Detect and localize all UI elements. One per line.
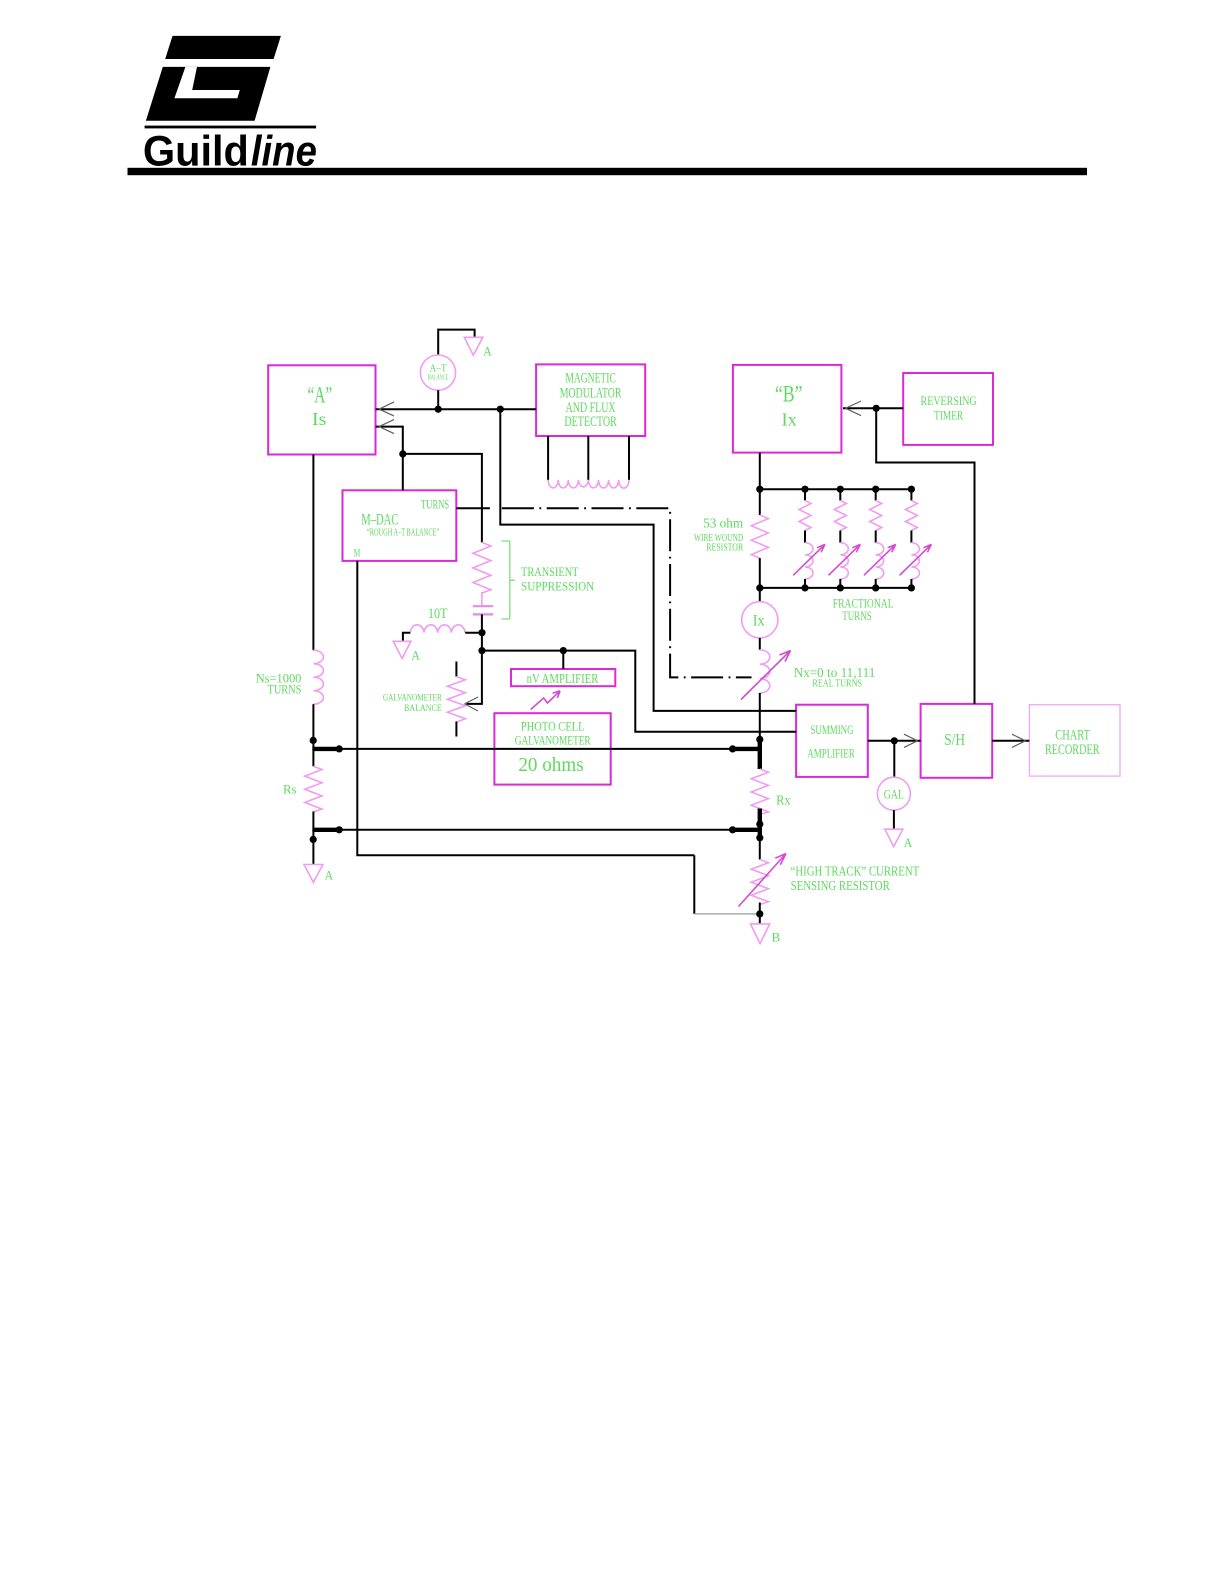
header rule xyxy=(128,168,1088,175)
wire reversing timer to "B" box xyxy=(843,407,903,409)
node B ground xyxy=(756,910,763,917)
fractional turns branch 3 xyxy=(864,489,896,588)
wire node to transient suppression branch xyxy=(403,454,482,543)
svg-text:Ix: Ix xyxy=(782,410,797,430)
wire Rs to lower bus xyxy=(312,812,314,830)
block magnetic modulator and flux detector xyxy=(536,364,645,436)
svg-text:TIMER: TIMER xyxy=(934,408,963,423)
transformer winding mag modulator xyxy=(548,480,629,488)
arrowhead into "A" box lower xyxy=(379,420,394,434)
svg-text:Rs: Rs xyxy=(283,782,297,797)
dashed wire TURNS to Nx real turns inductor xyxy=(502,508,752,677)
svg-text:A: A xyxy=(904,835,913,850)
node right of "B" box xyxy=(873,405,880,412)
lead resistor to capacitor xyxy=(481,592,483,605)
svg-text:BALANCE: BALANCE xyxy=(404,704,442,714)
svg-text:“A”: “A” xyxy=(308,383,333,408)
arrowhead wiper xyxy=(465,697,479,711)
lower bus wire xyxy=(339,829,732,831)
svg-text:MAGNETIC: MAGNETIC xyxy=(565,371,616,387)
block "B" Ix xyxy=(733,365,842,453)
capacitor transient suppression xyxy=(473,606,493,614)
node nV line left xyxy=(478,647,485,654)
resistor transient suppression xyxy=(473,542,491,593)
svg-text:M: M xyxy=(354,548,361,560)
wire second A-box input to M-DAC xyxy=(376,427,403,491)
node below Rx xyxy=(756,821,763,828)
resistor Rs xyxy=(305,766,322,811)
block chart recorder xyxy=(1029,705,1120,776)
wire "A" box bottom to Ns coil xyxy=(312,455,314,651)
variable inductor Nx real turns xyxy=(760,650,770,693)
wire 10T to ground xyxy=(403,633,410,642)
node on vertical above upper bus xyxy=(310,737,317,744)
svg-text:B: B xyxy=(772,929,781,944)
svg-text:GALVANOMETER: GALVANOMETER xyxy=(515,734,591,748)
svg-text:20 ohms: 20 ohms xyxy=(518,754,584,776)
wire "B" box bottom to resistor bank rail xyxy=(759,453,761,490)
ground A (GAL) xyxy=(885,829,903,846)
upper bus wire through photo cell box xyxy=(339,748,732,750)
block nV amplifier xyxy=(511,669,615,687)
node above M-DAC xyxy=(399,450,406,457)
inductor Ns=1000 turns xyxy=(313,650,323,704)
svg-text:53 ohm: 53 ohm xyxy=(703,516,743,531)
svg-text:“B”: “B” xyxy=(775,382,803,407)
arrowhead into chart recorder xyxy=(1012,734,1026,747)
node summing output xyxy=(891,737,898,744)
thick wire Rx to lower bus xyxy=(758,809,762,840)
variable resistor "high track" current sensing xyxy=(751,860,768,905)
wire elbow above A-T balance xyxy=(438,330,474,355)
wire from node down then right then down to summing amplifier input xyxy=(500,409,796,711)
ground A (10T) xyxy=(393,641,411,658)
fractional turns branch 2 xyxy=(829,489,861,588)
svg-text:SUMMING: SUMMING xyxy=(810,722,853,737)
thick wire node to Rx xyxy=(758,739,762,769)
node below lower bus xyxy=(756,834,763,841)
ground A (Rs bottom) xyxy=(304,865,323,883)
node junction main wire xyxy=(497,406,504,413)
wire GAL to ground xyxy=(893,810,895,829)
svg-text:10T: 10T xyxy=(428,606,448,622)
GAL circle xyxy=(877,777,910,810)
block "A" Is xyxy=(268,365,375,454)
upper bus thick bar left xyxy=(312,747,340,751)
svg-text:nV AMPLIFIER: nV AMPLIFIER xyxy=(527,672,599,687)
wire grey segment to B ground node xyxy=(693,855,695,914)
svg-text:GALVANOMETER: GALVANOMETER xyxy=(383,694,442,704)
node above Rx xyxy=(756,736,763,743)
wire rail to Ix circle xyxy=(759,588,761,602)
block S/H xyxy=(921,704,993,778)
node lower bus right xyxy=(729,826,736,833)
wire node to GAL xyxy=(893,741,895,777)
svg-text:S/H: S/H xyxy=(944,730,965,749)
node upper bus left xyxy=(336,745,343,752)
Ix source circle xyxy=(742,602,778,638)
node lower bus left xyxy=(336,826,343,833)
potentiometer galvanometer balance stub bottom xyxy=(455,722,457,737)
svg-text:M–DAC: M–DAC xyxy=(361,512,398,529)
svg-text:A: A xyxy=(483,343,492,358)
arrow photo cell to nV amplifier xyxy=(531,691,560,710)
fractional turns branch 4 xyxy=(900,489,932,588)
wire Ix to Nx inductor xyxy=(759,638,761,650)
wire A-T balance to main node xyxy=(437,390,439,409)
svg-text:Rx: Rx xyxy=(776,793,791,808)
svg-text:REVERSING: REVERSING xyxy=(921,393,977,408)
wire main horizontal into "A" box xyxy=(376,408,536,410)
fractional turns branch 1 xyxy=(793,489,825,588)
svg-text:Ix: Ix xyxy=(753,613,765,630)
svg-text:SUPPRESSION: SUPPRESSION xyxy=(521,578,595,593)
wire high track to ground B xyxy=(759,903,761,924)
node on vertical below lower bus xyxy=(310,836,317,843)
block photo cell galvanometer 20 ohms xyxy=(494,713,610,784)
wire to ground A (Rs) xyxy=(312,830,314,865)
node upper bus right xyxy=(729,745,736,752)
resistor bank bottom rail xyxy=(760,587,912,589)
resistor Rx xyxy=(751,769,768,814)
wire stub into nV amplifier xyxy=(562,651,564,669)
wire capacitor to node xyxy=(481,614,483,650)
wire M terminal of M-DAC down and right xyxy=(357,561,694,855)
node under A-T balance xyxy=(435,406,442,413)
wire node down right down to S/H top xyxy=(876,408,974,704)
svg-text:AMPLIFIER: AMPLIFIER xyxy=(807,745,855,760)
wire TURNS output solid stub xyxy=(456,507,490,509)
svg-text:“HIGH TRACK” CURRENT: “HIGH TRACK” CURRENT xyxy=(791,863,920,878)
resistor bank top rail xyxy=(760,488,912,490)
A-T balance circle xyxy=(420,355,455,390)
svg-text:TURNS: TURNS xyxy=(842,608,872,623)
block M-DAC xyxy=(343,490,457,561)
brace transient suppression xyxy=(502,541,515,619)
Guildline wordmark xyxy=(143,128,317,176)
svg-text:BALANCE: BALANCE xyxy=(428,374,449,382)
svg-text:RESISTOR: RESISTOR xyxy=(706,543,743,554)
svg-text:“ROUGH A–T BALANCE”: “ROUGH A–T BALANCE” xyxy=(367,528,439,539)
potentiometer galvanometer balance stub top xyxy=(455,662,457,677)
block summing amplifier xyxy=(796,705,868,777)
node below capacitor xyxy=(478,629,485,636)
svg-text:A: A xyxy=(325,868,334,883)
arrowhead into "B" box xyxy=(846,401,862,416)
svg-text:REAL TURNS: REAL TURNS xyxy=(812,678,862,689)
wire Nx to Rx node xyxy=(759,693,761,739)
block reversing timer xyxy=(903,373,993,445)
arrowhead into "A" box upper xyxy=(379,402,394,416)
svg-text:SENSING RESISTOR: SENSING RESISTOR xyxy=(791,878,890,893)
upper bus thick bar right xyxy=(732,747,761,751)
wire to high track resistor xyxy=(759,840,761,860)
svg-text:DETECTOR: DETECTOR xyxy=(564,414,617,430)
svg-text:TURNS: TURNS xyxy=(421,498,449,512)
node above nV amplifier xyxy=(560,647,567,654)
wire summing amplifier to S/H xyxy=(868,740,921,742)
arrowhead into S/H xyxy=(904,734,918,747)
wire Ns coil to upper bus xyxy=(312,704,314,749)
wire 10T to node xyxy=(465,632,482,634)
ground B xyxy=(751,924,770,944)
wire bus to Rs xyxy=(312,749,314,766)
svg-text:GAL: GAL xyxy=(884,786,904,801)
resistor 53 ohm wire wound xyxy=(759,489,761,515)
wire S/H to chart recorder xyxy=(992,740,1029,742)
lower bus thick bar right xyxy=(732,828,761,832)
svg-text:TRANSIENT: TRANSIENT xyxy=(521,564,579,579)
svg-text:PHOTO CELL: PHOTO CELL xyxy=(521,720,585,734)
Guildline logo G glyph xyxy=(145,36,317,128)
potentiometer galvanometer balance xyxy=(447,677,465,723)
svg-text:RECORDER: RECORDER xyxy=(1045,742,1100,758)
inductor 10T xyxy=(410,625,465,633)
svg-text:TURNS: TURNS xyxy=(268,681,302,696)
wire nV amplifier line xyxy=(482,651,796,732)
lower bus thick bar left xyxy=(312,828,340,832)
svg-text:Is: Is xyxy=(312,409,326,429)
wire galvanometer balance wiper xyxy=(467,651,482,704)
ground A (top, by A-T balance) xyxy=(464,337,483,355)
wire mag modulator winding stubs xyxy=(548,436,629,480)
svg-text:A: A xyxy=(411,647,420,662)
